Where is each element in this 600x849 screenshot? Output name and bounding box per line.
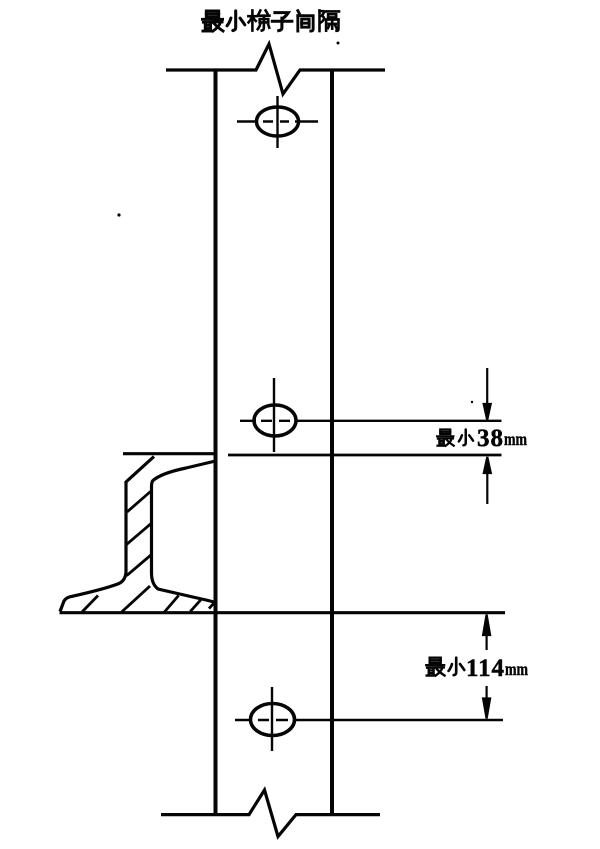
svg-text:114: 114: [466, 655, 505, 682]
top stringer edge with break symbol: [166, 44, 385, 94]
hatch web 1: [127, 492, 151, 513]
label 最小38mm: [437, 430, 473, 446]
rung hole ellipse top: [257, 107, 299, 136]
bottom stringer edge with break symbol: [161, 790, 380, 837]
hatch web 3: [127, 555, 152, 576]
rung hole ellipse bottom: [251, 704, 295, 736]
hatch base 4: [190, 598, 202, 611]
title 最小梯子间隔: [202, 10, 339, 31]
centerline/dimension line 38 top: [240, 420, 502, 422]
dim 38 arrow top: [484, 368, 491, 420]
hatch base 3: [164, 596, 179, 613]
svg-text:mm: mm: [504, 429, 527, 449]
rail web left and base left outline: [60, 481, 126, 612]
speck top right: [337, 42, 340, 45]
centerline vertical top hole: [276, 96, 278, 148]
speck left: [117, 213, 120, 216]
svg-text:mm: mm: [505, 659, 528, 679]
svg-text:38: 38: [477, 425, 503, 452]
hatch base 1: [82, 596, 98, 613]
speck mid right: [471, 401, 473, 403]
centerline/dimension line 114 bottom: [235, 719, 503, 721]
centerline vertical middle hole: [273, 378, 275, 452]
rail head top line: [123, 452, 216, 455]
left stringer line: [214, 70, 218, 814]
dim 38 arrow bottom: [484, 457, 491, 504]
hatch base 5: [209, 604, 214, 609]
centerline horizontal top hole: [237, 120, 318, 122]
rail head fillet and web right outline: [152, 461, 216, 603]
dim 114 arrow up: [483, 615, 490, 651]
rung hole ellipse middle: [254, 405, 296, 436]
right stringer line: [330, 70, 334, 814]
rail head chamfer: [126, 457, 154, 483]
dimension line 38 bottom: [228, 454, 502, 457]
hatch web 2: [127, 523, 152, 544]
rail base bottom line / dimension line 114 top: [60, 611, 506, 614]
dim 114 arrow down: [483, 686, 490, 719]
hatch base 2: [122, 586, 150, 612]
centerline vertical bottom hole: [271, 687, 273, 751]
label 最小114mm: [426, 658, 464, 676]
